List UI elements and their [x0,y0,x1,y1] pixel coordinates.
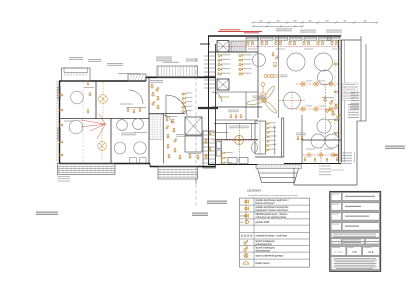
table labels middle room [121,133,136,136]
kitchen sockets low column [221,152,225,154]
svg-text:230/400 gniazd wtycz. z bolcem: 230/400 gniazd wtycz. z bolcem [256,213,288,216]
note text right side [385,146,405,150]
wall left wing left [59,81,61,164]
tables middle room [117,120,128,131]
exterior stairs bottom [258,169,299,183]
partition horizontal rooms [60,118,150,120]
boundary lower vertical [356,121,358,185]
elevator shaft crossed 2 [217,79,229,90]
bracket right of room [353,152,354,162]
svg-text:kinkiet (ramie): kinkiet (ramie) [256,262,270,265]
svg-text:354: 354 [277,20,280,22]
socket column kitchen 1 [218,54,222,56]
kitchen wall segment [212,106,262,108]
kitchen hall divider [257,36,259,118]
wall top extension to boundary [341,39,361,41]
wall bottom room top [302,139,341,141]
hall floor lamp [260,83,265,96]
partition vertical 3 [148,77,150,163]
wall lamp labels [248,48,257,51]
wall left wing bottom [59,163,150,165]
room lamp track 1 [102,82,104,118]
svg-text:290: 290 [294,20,297,22]
table circle 1 [253,54,266,67]
door arc bath [164,115,172,123]
svg-text:01-E: 01-E [368,250,374,254]
elevator shaft crossed 1 [217,41,229,53]
bottom room sockets [304,158,306,161]
table circle 4 [318,70,333,85]
red circuit kitchen vertical [239,124,241,162]
red dashed vertical left [56,81,58,163]
title block row3 [331,213,341,220]
room table circle west 1 [71,91,84,104]
title block thin rows B [331,239,341,241]
door arc hall [166,95,187,116]
legend table frame [240,198,310,267]
wall bottom room left [301,115,303,164]
dimension line secondary [252,25,304,27]
svg-text:bolcem ochronnym: bolcem ochronnym [256,202,275,205]
table circle 3 [315,53,333,71]
wall left wing top connector [145,77,147,81]
svg-text:gniazdo RJ45: gniazdo RJ45 [256,222,271,224]
terrace A hatched [128,74,146,81]
right rooms cluster labels [165,116,177,117]
title block background [330,191,381,271]
bar counter outline [255,121,266,154]
kitchen appliance sockets [230,115,232,118]
boundary connect [357,120,366,122]
labels above left wing 2 [88,59,101,62]
window sill boxes top wall [246,37,340,40]
legend symbol row6 led strip [241,235,253,237]
svg-text:312: 312 [260,20,263,22]
labels above left wing 4 [156,57,172,62]
left wing sockets room1 [87,82,89,85]
svg-text:wypust oswietlenia gornego: wypust oswietlenia gornego [256,255,284,258]
balcony bottom-mid [158,167,198,180]
kitchen top orange label [218,96,229,99]
shaft crossed left wing [185,117,202,135]
gray dashed track room1 [82,82,84,163]
legend riser line [245,199,247,224]
wc toilet oval [252,143,258,153]
note text below plan 2 [207,201,227,205]
note label nadstawka right [326,30,342,33]
wall bottom mid [284,163,341,165]
hall linear fixture label [280,75,288,78]
table circle 6 [317,119,331,133]
legend symbol row7 switch single [244,240,248,244]
door arc junction [212,92,222,102]
note label nadstawka left [276,28,292,31]
wall bottom hall [208,164,258,166]
room table circle west 2 [69,120,83,134]
ceiling fan large [246,85,277,114]
bar wall bottom [255,156,284,158]
bottom room red circuit [303,154,340,156]
balcony bottom-left steps [58,177,71,182]
balkon label [163,62,179,63]
svg-text:xx.xx.xxxx: xx.xx.xxxx [334,252,343,254]
bar tick line [274,125,276,155]
hall symbols mid [297,137,299,140]
bar wall double inner [283,118,285,157]
door arc room [129,90,143,104]
labels above left wing 3 [107,63,123,66]
red circuit dashed row B [296,108,338,110]
svg-text:lacznik instalacyjny: lacznik instalacyjny [256,240,276,243]
shaft gray room [231,41,246,52]
hall partition vertical [278,36,280,118]
svg-text:(wszystkie wymieniane a nie wy: (wszystkie wymieniane a nie wyprobowane … [248,194,298,197]
lamp cluster right wall [324,97,327,101]
boundary bottom horizontal [294,184,357,186]
staircase treads [203,131,216,168]
balcony bottom-left [58,164,116,175]
wall left of right wing [208,36,210,165]
kitchen centre label [229,126,249,129]
sockets upper mid room [127,108,129,111]
red wall label 2 [244,32,259,33]
gray dashed vertical hall [334,60,336,140]
boundary line outer [360,36,362,121]
section cut dashed line [195,58,197,205]
room lamp 1 [99,95,108,104]
roof overhang line right [344,40,346,162]
wall left wing top right part [146,76,216,78]
title block data skala row [331,247,346,256]
right wall sockets [334,63,337,65]
legend symbol row1 socket [245,200,249,204]
hall floor lamp label [257,97,267,100]
annotation text parcel [351,92,360,109]
left wing sockets west wall [60,94,63,96]
corridor socket column [182,93,186,95]
kitchen lamp [234,135,243,144]
socket column kitchen 2 [239,54,243,56]
wall left wing bottom right [150,166,216,168]
shaft below [185,136,202,152]
legend symbol row2 socket hermetic [245,207,249,211]
labels upper mid room [120,104,133,105]
svg-text:LEGENDA :: LEGENDA : [247,188,263,192]
hatch band terrace edge [257,165,301,169]
annotation lines right lower [348,104,359,118]
kitchen partition low [216,119,258,121]
legend symbol row10 wall lamp [243,262,249,265]
svg-text:gniazdo wtyczkowe hermetyczne: gniazdo wtyczkowe hermetyczne [256,206,290,209]
bottom room lamps [307,153,311,157]
svg-text:RJ: RJ [241,222,243,224]
terrace B hatched [157,66,198,77]
terrace top-left posts [65,73,86,77]
wall short junction [200,43,210,45]
hall linear fixture [264,75,278,78]
svg-text:312: 312 [309,20,312,22]
wall top kitchen-hall [208,35,341,37]
red marked wall line [218,31,262,33]
wall left wing top [59,80,146,82]
balcony tick [195,179,197,184]
legend symbol row8 switch double [244,246,248,251]
partition right vertical [163,114,165,164]
title block row2 [331,203,341,210]
bar socket column [265,122,269,124]
kitchen partition horizontal [209,51,259,53]
partition right rooms [149,113,185,115]
wc room vertical [220,140,222,165]
wall left wing bottom step [149,164,151,167]
right rooms cluster sockets [166,118,168,122]
hall sockets near partition [272,53,274,56]
red wall label 1 [220,29,241,30]
kitchen appliance labels [228,110,239,113]
note text below plan 1 [192,213,208,217]
note text left side [36,212,58,216]
corridor column labels [186,93,193,112]
left wing sockets labels1 [84,87,94,88]
kitchen counter edge [212,132,228,134]
kitchen partition mid [216,91,258,93]
svg-text:dwubiegunowy: dwubiegunowy [256,251,272,253]
fan label box [253,96,264,99]
bathroom tile grid [150,115,164,140]
red circuit dashed row A [296,83,338,85]
table circle 8 [325,134,339,148]
partition vertical 1 [95,81,97,119]
hall label mid [296,133,306,136]
window marks west wall [58,87,61,140]
title block disclaimer [331,257,379,270]
title block thin row A [331,233,379,238]
svg-text:pojedyncze z bolcem ochronnym: pojedyncze z bolcem ochronnym [256,209,289,212]
svg-text:gniazdo wtyczkowe pojedyncze z: gniazdo wtyczkowe pojedyncze z [256,199,290,202]
text right of room [342,153,352,164]
leader line below room [331,169,344,171]
note label nadstawka mid [300,30,316,33]
svg-text:354: 354 [326,20,329,22]
table circle 7 [311,134,325,148]
kitchen counter vertical 1 [226,123,228,139]
room lamp 2 [98,142,107,151]
wall right double outer [338,40,340,163]
node labels row A [306,80,313,83]
kitchen counter top line [214,122,258,124]
wall right double inner [340,40,342,163]
dimension line main top [252,21,378,23]
red circuit node lamps row A [301,82,305,86]
kitchen vertical low [245,92,247,120]
title block row4 [331,223,341,230]
boundary line second [365,44,367,121]
boundary left of ramp [293,168,295,185]
table circle 2 [287,53,305,71]
svg-text:312: 312 [344,20,347,22]
red circuit kitchen horizontal [213,139,258,141]
red circuit node lamps row B [301,107,305,111]
kitchen low labels [225,152,233,163]
svg-text:452: 452 [364,20,367,22]
wall junction corridor [215,44,217,166]
labels above left wing 1 [69,57,83,60]
bar wall double outer [281,118,283,157]
title block row1 [331,193,341,201]
lamp cluster labels [322,97,334,98]
upper stair treads [204,56,216,88]
terrace top-left outer [62,68,91,81]
hall pendant lamp [273,62,277,67]
red circuit dashed top [218,45,340,47]
red circuit fan hub [81,114,106,139]
partition vertical 2 [110,119,112,164]
wall lamp pairs top [246,42,249,45]
svg-text:1:50: 1:50 [352,250,358,254]
svg-text:lacznik instalacyjny: lacznik instalacyjny [256,247,276,250]
bar socket labels [269,122,276,149]
bottom room labels [306,148,315,151]
wc fixtures rects [217,142,249,164]
bar wall cap [282,117,284,119]
node labels row B [306,105,313,108]
wc room top wall [215,139,258,141]
kitchen counter vertical 2 [251,123,253,139]
legend symbol row9 ceiling outlet [244,254,248,258]
svg-text:oswietlenie ledowe - oczk list: oswietlenie ledowe - oczk listwy [256,235,289,238]
labels above left wing 5 [186,59,198,62]
bath cluster labels [150,80,163,83]
thick wall junction [198,107,218,109]
red circuit vertical [325,84,327,141]
bench line upper mid room [126,107,146,109]
label below room [319,166,331,176]
svg-text:jednobiegunowy: jednobiegunowy [255,244,273,246]
terrace top-left railing [64,68,88,73]
annotation boxes right [343,83,358,86]
svg-text:ochronnym we wspolnej ramce: ochronnym we wspolnej ramce [256,216,288,219]
furniture rects bottom room [130,158,147,164]
bath cluster sockets [151,84,153,88]
red crosshair table light [279,100,305,102]
table circle 5 [284,92,301,109]
room lamp track 2 [101,119,103,160]
